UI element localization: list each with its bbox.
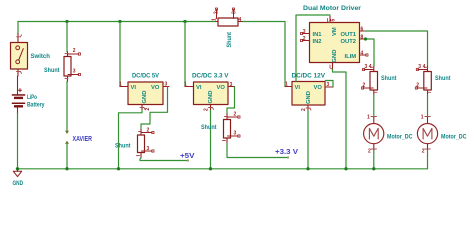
node junction out2 [364, 37, 367, 40]
wire DC/DC12V VO loop [326, 81, 334, 88]
svg-text:3: 3 [365, 64, 368, 70]
svg-text:3: 3 [418, 64, 421, 70]
svg-text:8: 8 [361, 34, 364, 40]
svg-text:2: 2 [73, 48, 76, 54]
wire shunt1 down to XAVIER label [66, 82, 68, 133]
node junction top shunt1 [65, 20, 68, 23]
svg-text:GND: GND [332, 50, 338, 63]
pin OUT2 [360, 38, 366, 40]
node junction bus 3v3 gnd [209, 167, 212, 170]
svg-text:IN1: IN1 [313, 32, 323, 38]
node junction bus xavier [65, 167, 68, 170]
wire input drop to DC/DC 5V [119, 22, 121, 87]
resistor shunt R3 (3.3V rail) [201, 112, 240, 144]
wire DC/DC5V GND to bus [119, 110, 143, 169]
switch SW1 [11, 34, 51, 77]
svg-text:Shunt: Shunt [115, 143, 131, 150]
svg-text:VO: VO [314, 85, 323, 91]
svg-text:GND: GND [142, 91, 148, 104]
svg-text:2: 2 [204, 108, 210, 111]
svg-text:3: 3 [230, 82, 233, 88]
svg-text:2: 2 [368, 149, 371, 155]
svg-text:Motor_DC: Motor_DC [441, 134, 467, 141]
wire shunt to motor 2 [427, 95, 429, 118]
wire shunt to +5V label [140, 158, 188, 161]
svg-text:IN2: IN2 [313, 39, 322, 45]
resistor shunt R4 (main battery rail, horizontal) [212, 8, 243, 48]
svg-text:4: 4 [361, 50, 364, 56]
svg-text:DC/DC 12V: DC/DC 12V [292, 73, 326, 80]
node junction top dcdc5v [118, 20, 121, 23]
svg-text:Motor_DC: Motor_DC [387, 134, 413, 141]
wire DC/DC3.3V GND to bus [210, 111, 212, 169]
node junction bus 5v gnd [117, 167, 120, 170]
motor M1 [364, 115, 413, 155]
svg-text:1: 1 [184, 82, 187, 88]
svg-text:VO: VO [217, 85, 226, 91]
svg-text:2: 2 [301, 108, 307, 111]
svg-text:Shunt: Shunt [44, 67, 60, 74]
svg-text:2: 2 [303, 36, 306, 42]
resistor shunt R5 (motor 1) [362, 64, 398, 95]
svg-text:Shunt: Shunt [201, 124, 217, 131]
svg-text:3: 3 [73, 68, 76, 74]
resistor shunt R6 (motor 2) [415, 64, 451, 95]
svg-text:2: 2 [234, 112, 237, 118]
resistor shunt R2 (5V rail) [115, 128, 154, 159]
svg-text:3: 3 [165, 82, 168, 88]
node +3.3V power label [275, 149, 298, 159]
wire shunt to +3.3V label [227, 144, 288, 158]
svg-text:DC/DC 3.3 V: DC/DC 3.3 V [192, 73, 229, 80]
wire shunt to motor 1 [373, 95, 375, 118]
svg-text:4: 4 [423, 64, 426, 70]
battery BT1 LiPo [12, 76, 45, 114]
svg-text:Switch: Switch [31, 53, 51, 60]
svg-text:3: 3 [234, 131, 237, 137]
node junction bus motor1 [372, 167, 375, 170]
svg-text:Shunt: Shunt [226, 31, 233, 47]
node junction top dcdc3v3 [183, 20, 186, 23]
wire driver GND to bus [333, 70, 347, 169]
svg-text:4: 4 [369, 64, 372, 70]
wire ground bus [18, 168, 428, 170]
wire VM supply to motor driver [296, 15, 330, 82]
svg-text:2: 2 [147, 128, 150, 134]
svg-text:GND: GND [208, 91, 214, 104]
svg-text:VI: VI [295, 85, 301, 91]
wire motor 2 to bus [427, 151, 429, 169]
svg-text:LiPo: LiPo [27, 94, 37, 101]
op-amp U4 Dual Motor Driver [301, 5, 369, 70]
wire motor 1 to bus [373, 151, 375, 169]
wire OUT1 to right shunt [365, 31, 428, 66]
svg-text:GND: GND [306, 91, 312, 104]
wire XAVIER to ground bus [66, 144, 68, 169]
wire DC/DC3.3V VO to shunt [227, 87, 235, 114]
svg-text:VI: VI [131, 85, 137, 91]
wire input drop to DC/DC 3.3V [184, 22, 186, 87]
svg-text:3: 3 [303, 29, 306, 35]
op-amp U2 DC/DC 3.3V converter [184, 73, 235, 112]
svg-text:2: 2 [416, 83, 419, 89]
wire battery to ground bus [17, 114, 19, 169]
svg-text:1: 1 [285, 82, 288, 88]
svg-text:1: 1 [367, 115, 370, 121]
node XAVIER label [66, 131, 92, 144]
svg-text:OUT2: OUT2 [341, 39, 356, 45]
node +5V power label [180, 153, 195, 162]
op-amp U3 DC/DC 12V converter [285, 73, 333, 112]
pin GND (bottom) [332, 63, 334, 70]
motor M2 [417, 115, 466, 155]
svg-text:Shunt: Shunt [381, 75, 397, 82]
svg-text:VM: VM [332, 27, 338, 36]
svg-text:6: 6 [361, 26, 364, 32]
svg-text:2: 2 [363, 83, 366, 89]
svg-text:ILIM: ILIM [345, 54, 357, 60]
pin IN1 [303, 33, 310, 35]
pin ILIM [360, 54, 367, 56]
svg-text:2: 2 [214, 11, 220, 14]
wire top main rail [18, 21, 285, 23]
pin VM (top) [329, 16, 331, 23]
svg-text:Shunt: Shunt [435, 75, 451, 82]
node junction bus battery [16, 167, 19, 170]
svg-text:VO: VO [151, 85, 160, 91]
wire drop to DC/DC 12V [284, 22, 286, 87]
svg-text:DC/DC 5V: DC/DC 5V [132, 73, 160, 80]
svg-text:GND: GND [13, 180, 24, 187]
svg-text:1: 1 [119, 82, 122, 88]
svg-text:Dual Motor Driver: Dual Motor Driver [303, 5, 361, 12]
svg-text:2: 2 [422, 149, 425, 155]
ground GND symbol [13, 169, 24, 187]
pin OUT1 [360, 30, 366, 32]
svg-text:Battery: Battery [27, 101, 45, 108]
wire left drop to switch [17, 22, 19, 35]
svg-text:4: 4 [239, 17, 242, 23]
svg-text:3: 3 [232, 11, 238, 14]
wire OUT2 to left shunt [365, 39, 374, 66]
svg-text:+3.3 V: +3.3 V [275, 149, 298, 156]
pin IN2 [303, 40, 310, 42]
wire DC/DC12V GND to bus [307, 111, 309, 169]
svg-text:VI: VI [196, 85, 202, 91]
wire DC/DC5V VO to shunt [141, 87, 168, 130]
svg-text:1: 1 [421, 115, 424, 121]
svg-text:XAVIER: XAVIER [73, 136, 93, 143]
node junction bus 12v gnd [306, 167, 309, 170]
resistor shunt R1 (battery current) [44, 48, 81, 82]
svg-text:3: 3 [147, 146, 150, 152]
wire shunt1 branch from top rail [66, 22, 68, 52]
svg-text:+5V: +5V [180, 153, 195, 160]
svg-text:2: 2 [145, 108, 151, 111]
op-amp U1 DC/DC 5V converter [119, 73, 169, 111]
node junction bus driver gnd [344, 167, 347, 170]
svg-text:OUT1: OUT1 [341, 32, 357, 38]
svg-text:1: 1 [212, 18, 218, 21]
svg-text:5: 5 [331, 19, 337, 22]
svg-text:3: 3 [327, 82, 330, 88]
